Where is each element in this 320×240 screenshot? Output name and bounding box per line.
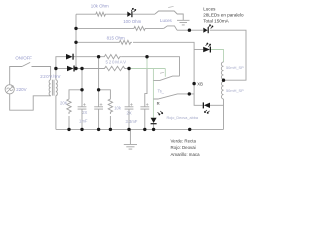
- wire row1: [76, 13, 95, 15]
- vertical C3 feed: [128, 69, 130, 107]
- resistor R4: [103, 66, 126, 70]
- node bus-row42: [74, 41, 77, 44]
- diode LED D3: [203, 47, 210, 53]
- svg-text:28LEDs en paralelo: 28LEDs en paralelo: [203, 13, 244, 18]
- relay contact SW2: [153, 76, 179, 80]
- node bus-row2: [74, 27, 77, 30]
- wire R1 to LED1: [107, 13, 128, 15]
- contact mark SW2: [160, 72, 164, 75]
- wire row42: [76, 41, 119, 43]
- transformer T1 primary winding: [49, 80, 50, 96]
- svg-text:Rojo: Deovai: Rojo: Deovai: [171, 145, 196, 150]
- hop contact row1: [155, 11, 183, 20]
- node XB: [192, 82, 195, 85]
- wire row57 right: [121, 57, 179, 76]
- relay coil L2: [221, 82, 223, 99]
- svg-text:Luces: Luces: [203, 7, 216, 12]
- green wire relay coil feed: [210, 50, 223, 63]
- resistor R1: [95, 12, 107, 16]
- wire D3 branch: [194, 49, 203, 51]
- branch to R 10k: [99, 90, 111, 98]
- svg-text:Total 150mA: Total 150mA: [203, 18, 229, 23]
- wire row2: [76, 27, 133, 29]
- svg-text:Amarillo: maca: Amarillo: maca: [171, 152, 201, 157]
- svg-text:R: R: [157, 101, 160, 106]
- transformer T1 secondary winding: [56, 80, 57, 96]
- wire coil bottom to bus: [223, 99, 225, 129]
- capacitor C3: [125, 107, 134, 130]
- node secondary-D2: [54, 67, 57, 70]
- wire D1 output row: [73, 56, 103, 58]
- wire AC bottom to transformer primary: [10, 94, 51, 110]
- svg-text:20K: 20K: [60, 101, 68, 106]
- resistor R7 10k vertical: [108, 98, 112, 114]
- node LED2 in: [188, 29, 191, 32]
- branch to R 20K: [69, 90, 82, 98]
- hop contact row2: [164, 26, 177, 30]
- contact mark row1: [168, 6, 173, 9]
- svg-text:Rojo_Deova_abba: Rojo_Deova_abba: [167, 116, 199, 120]
- node bus-end row68: [74, 67, 77, 70]
- diode D4: [204, 103, 210, 108]
- wire secondary top to diodes: [56, 57, 66, 80]
- capacitor C2: [94, 107, 103, 130]
- resistor R5: [119, 40, 133, 44]
- wire D4 to coil: [210, 104, 224, 106]
- ground bus: [56, 128, 224, 130]
- svg-text:3.3mF: 3.3mF: [126, 119, 138, 124]
- resistor R2: [133, 26, 146, 30]
- diode LED3: [151, 118, 157, 123]
- node bus right: [188, 128, 191, 131]
- resistor R6 20K vertical: [67, 98, 71, 114]
- relay coil L1: [221, 62, 223, 79]
- node C1 top: [80, 88, 83, 91]
- wire R6 to bus: [68, 116, 70, 129]
- svg-text:100 Ohm: 100 Ohm: [123, 19, 141, 24]
- node green row68: [127, 67, 130, 70]
- node bus R7: [109, 128, 112, 131]
- node bus LED3: [152, 128, 155, 131]
- node bus R6: [67, 128, 70, 131]
- wire hop2 to LED2: [177, 29, 203, 31]
- node coil mid: [222, 79, 225, 82]
- svg-text:ON/OFF: ON/OFF: [15, 55, 32, 60]
- node D1 out: [97, 55, 100, 58]
- resistor R3: [103, 55, 121, 59]
- wire row68 to green: [126, 68, 129, 70]
- svg-text:2X: 2X: [82, 110, 87, 115]
- wire secondary bottom to ground bus: [55, 96, 57, 130]
- wire R5 to relay feed: [133, 42, 203, 105]
- relay contact SW3: [153, 94, 194, 99]
- vertical C4 feed: [145, 69, 147, 107]
- top bus vertical: [75, 14, 77, 68]
- vertical C1 feed: [81, 69, 83, 107]
- node SW3 out: [188, 92, 191, 95]
- svg-text:815 Ohm: 815 Ohm: [107, 35, 125, 40]
- switch SW1 ON/OFF: [22, 62, 51, 79]
- svg-text:50mH_SP: 50mH_SP: [226, 88, 244, 93]
- svg-text:50mH_SP: 50mH_SP: [226, 65, 244, 70]
- wire R7 to bus: [109, 116, 111, 129]
- node bus C2: [97, 128, 100, 131]
- svg-text:520MAV: 520MAV: [106, 60, 127, 65]
- ground G1: [177, 20, 190, 25]
- green wire row68 to common: [129, 57, 165, 118]
- node bus C4: [143, 128, 146, 131]
- node C2 top: [97, 88, 100, 91]
- AC source V1: [5, 85, 14, 94]
- diode LED1: [127, 12, 131, 17]
- node SW2 feed row57: [145, 55, 148, 58]
- wire D2 anode: [56, 68, 67, 70]
- ground G2: [124, 129, 137, 149]
- wire R2 to hop2: [147, 27, 164, 29]
- svg-text:Luces: Luces: [160, 18, 173, 23]
- node C1 row68: [80, 67, 83, 70]
- node bus C3: [127, 128, 130, 131]
- diode LED2: [203, 28, 207, 33]
- wire LED1 to hop1: [133, 13, 156, 15]
- transformer T1 core: [52, 80, 54, 96]
- diode D2: [67, 66, 74, 72]
- svg-text:220V/9V: 220V/9V: [40, 74, 61, 79]
- svg-text:220V: 220V: [16, 87, 26, 92]
- diode D1: [66, 54, 73, 60]
- wire LED2 to right edge: [210, 30, 246, 80]
- svg-text:1mF: 1mF: [79, 118, 88, 123]
- svg-text:10k Ohm: 10k Ohm: [91, 3, 109, 8]
- svg-text:Ts_: Ts_: [158, 89, 165, 94]
- LED3 cathode lead: [153, 123, 155, 129]
- vertical C2 feed: [98, 57, 100, 107]
- node bus C1: [80, 128, 83, 131]
- wire D2 output row: [75, 68, 104, 70]
- wire AC top to switch: [10, 67, 22, 85]
- svg-text:10k: 10k: [114, 105, 122, 110]
- capacitor C4: [140, 107, 149, 130]
- svg-text:2X: 2X: [127, 110, 132, 115]
- svg-text:XB: XB: [197, 81, 203, 86]
- capacitor C1: [78, 107, 87, 130]
- svg-text:Verde: Recta: Verde: Recta: [171, 138, 197, 143]
